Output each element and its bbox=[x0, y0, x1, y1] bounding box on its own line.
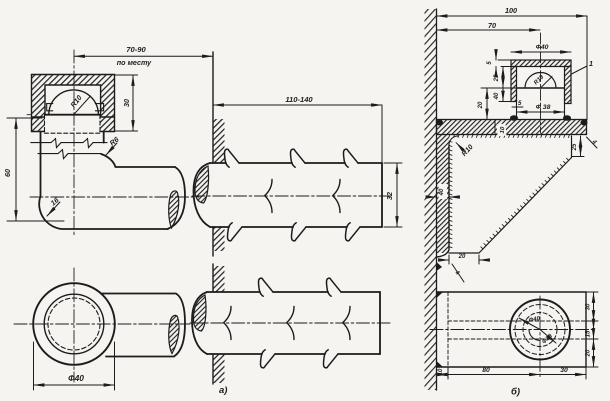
svg-text:20: 20 bbox=[586, 349, 592, 357]
svg-text:25: 25 bbox=[572, 143, 578, 151]
plan dashed circle D50 bbox=[515, 305, 565, 355]
svg-text:1: 1 bbox=[589, 59, 593, 68]
radius arrow D40 bbox=[519, 316, 541, 330]
svg-text:30: 30 bbox=[586, 303, 592, 310]
dimension D40 top bbox=[511, 44, 571, 52]
dimension D38 bbox=[517, 104, 565, 112]
circle centrelines bbox=[14, 323, 190, 325]
svg-text:30: 30 bbox=[122, 99, 131, 107]
plan weld triangles bbox=[437, 292, 444, 298]
dimension 20 gusset bottom bbox=[440, 254, 488, 264]
dimension 40 plate width bbox=[429, 184, 457, 199]
svg-text:70-90: 70-90 bbox=[126, 45, 146, 54]
dashed bore circle bbox=[48, 298, 100, 350]
barbs top bbox=[258, 278, 272, 296]
svg-text:80: 80 bbox=[482, 367, 490, 374]
shelf plate bbox=[437, 120, 587, 135]
clamp left leg bbox=[511, 67, 517, 102]
clamp item 1: top bar bbox=[511, 60, 571, 67]
wall face line lower bbox=[212, 264, 214, 384]
svg-text:25: 25 bbox=[494, 74, 500, 82]
shelf thickness 10 label bbox=[495, 120, 506, 136]
block ledge lines bbox=[32, 116, 45, 118]
shelf underside ticks bbox=[449, 135, 570, 138]
R10 label gusset bbox=[456, 143, 465, 153]
svg-text:по месту: по месту bbox=[117, 58, 152, 67]
svg-text:20: 20 bbox=[458, 254, 466, 260]
weld dots clamp legs bbox=[510, 115, 518, 121]
hidden pipe dashes in block bbox=[45, 115, 101, 134]
plan bottom dimensions 10 80 30 bbox=[437, 367, 587, 379]
weld leader bottom bbox=[452, 264, 464, 282]
inner recess white bbox=[45, 85, 101, 132]
R10 fillet gusset bbox=[449, 136, 458, 145]
pipe end section crescent bbox=[169, 191, 179, 228]
wall hatch upper bbox=[213, 119, 225, 163]
svg-text:100: 100 bbox=[505, 6, 517, 15]
chevrons bbox=[265, 180, 272, 213]
wall hatch upper segment bbox=[213, 266, 225, 292]
wall hatch lower bbox=[213, 227, 225, 251]
plan centrelines bbox=[430, 329, 592, 331]
rod body top view bbox=[192, 292, 380, 354]
small 5 label near pipe bbox=[512, 101, 523, 107]
barbs bottom bbox=[260, 350, 274, 368]
svg-text:30: 30 bbox=[560, 367, 568, 374]
pipe section crescent bottom view bbox=[169, 315, 179, 353]
svg-text:Ф40: Ф40 bbox=[68, 373, 84, 383]
gusset diagonal ticks bbox=[481, 158, 569, 249]
outer circle bbox=[33, 283, 115, 365]
svg-text:110-140: 110-140 bbox=[285, 95, 313, 104]
gusset diagonal bbox=[479, 158, 572, 254]
clamp semicircle bbox=[517, 73, 565, 89]
barbs bottom bbox=[227, 223, 241, 241]
hook semicircle R10 bbox=[45, 90, 101, 115]
svg-text:10: 10 bbox=[438, 368, 444, 375]
block bottom edges bbox=[32, 131, 45, 133]
dimension 25 gusset right bbox=[572, 136, 585, 157]
wall face line bbox=[436, 9, 438, 390]
rod centreline bbox=[192, 195, 390, 197]
shelf weld dots bbox=[436, 120, 443, 126]
clamp centreline bbox=[540, 33, 542, 133]
dimension 60 left bbox=[3, 118, 64, 221]
dimension D40 bbox=[34, 342, 115, 390]
svg-text:15: 15 bbox=[586, 330, 592, 337]
chevrons bbox=[224, 307, 231, 340]
plan outer circle bbox=[510, 300, 570, 360]
svg-text:40: 40 bbox=[494, 92, 500, 100]
svg-text:б): б) bbox=[511, 387, 520, 398]
R6 label with leader bbox=[106, 134, 121, 155]
plan dashed circle D34 bbox=[523, 313, 557, 347]
horizontal centreline of hook bbox=[27, 114, 32, 116]
svg-text:40: 40 bbox=[439, 188, 445, 196]
plate edge ticks bbox=[449, 141, 452, 248]
hook lip left bbox=[47, 104, 53, 111]
radius 16 label with leader bbox=[47, 195, 61, 216]
dimension 70 bbox=[437, 21, 541, 30]
rod centreline bottom bbox=[190, 322, 390, 324]
rod cut-end crescent bbox=[195, 166, 209, 203]
rod body bbox=[194, 163, 383, 227]
dimension 20 bbox=[478, 88, 487, 120]
gusset right edge bbox=[571, 136, 573, 158]
svg-text:Ф 38: Ф 38 bbox=[536, 104, 551, 111]
svg-text:а): а) bbox=[219, 385, 227, 396]
gusset bottom edge bbox=[449, 252, 479, 254]
horizontal pipe to rod bbox=[101, 294, 185, 357]
masonry wall hatch bbox=[425, 9, 437, 390]
hook lip right bbox=[95, 104, 103, 111]
plan plate outline bbox=[437, 292, 587, 367]
dimension 70-90 po mestu bbox=[74, 45, 213, 67]
dimension 110-140 bbox=[213, 95, 382, 163]
leader item 1 bbox=[572, 59, 594, 74]
break lines on riser bbox=[31, 139, 107, 159]
dimension 32 bbox=[384, 163, 402, 227]
vertical centreline of hook bbox=[73, 50, 75, 236]
inner circle bbox=[44, 294, 104, 354]
svg-text:Ф40: Ф40 bbox=[536, 44, 549, 51]
hidden gusset edges bbox=[448, 321, 586, 339]
wall face line bbox=[212, 52, 214, 256]
dimension 5 plate thickness bbox=[487, 53, 511, 74]
dimension chain 25 / 40 bbox=[481, 67, 517, 102]
radius arrow D38 bbox=[540, 330, 556, 346]
rod cut-end crescent top view bbox=[193, 295, 206, 331]
pipe elbow outline bbox=[39, 132, 185, 230]
wall hatch lower segment bbox=[213, 354, 225, 383]
barbs top bbox=[224, 149, 238, 167]
svg-text:70: 70 bbox=[488, 21, 496, 30]
svg-text:60: 60 bbox=[3, 169, 12, 177]
weld mark top right bbox=[587, 137, 598, 148]
weld triangle bottom bbox=[437, 262, 443, 271]
svg-text:32: 32 bbox=[385, 192, 394, 200]
dimension 30 right of block bbox=[115, 75, 138, 131]
pipe sides under clamp bbox=[517, 88, 565, 120]
vertical plate on wall bbox=[437, 135, 450, 258]
hidden vertical plate edge bbox=[447, 292, 449, 377]
hook housing hatched block bbox=[32, 75, 115, 132]
plan inner arc bbox=[529, 330, 540, 341]
elbow horizontal centreline bbox=[30, 196, 199, 198]
clamp right leg bbox=[565, 67, 572, 104]
svg-text:20: 20 bbox=[478, 101, 484, 109]
svg-text:10: 10 bbox=[500, 126, 507, 134]
plan right dimensions bbox=[586, 292, 599, 367]
dimension 100 bbox=[437, 6, 588, 120]
